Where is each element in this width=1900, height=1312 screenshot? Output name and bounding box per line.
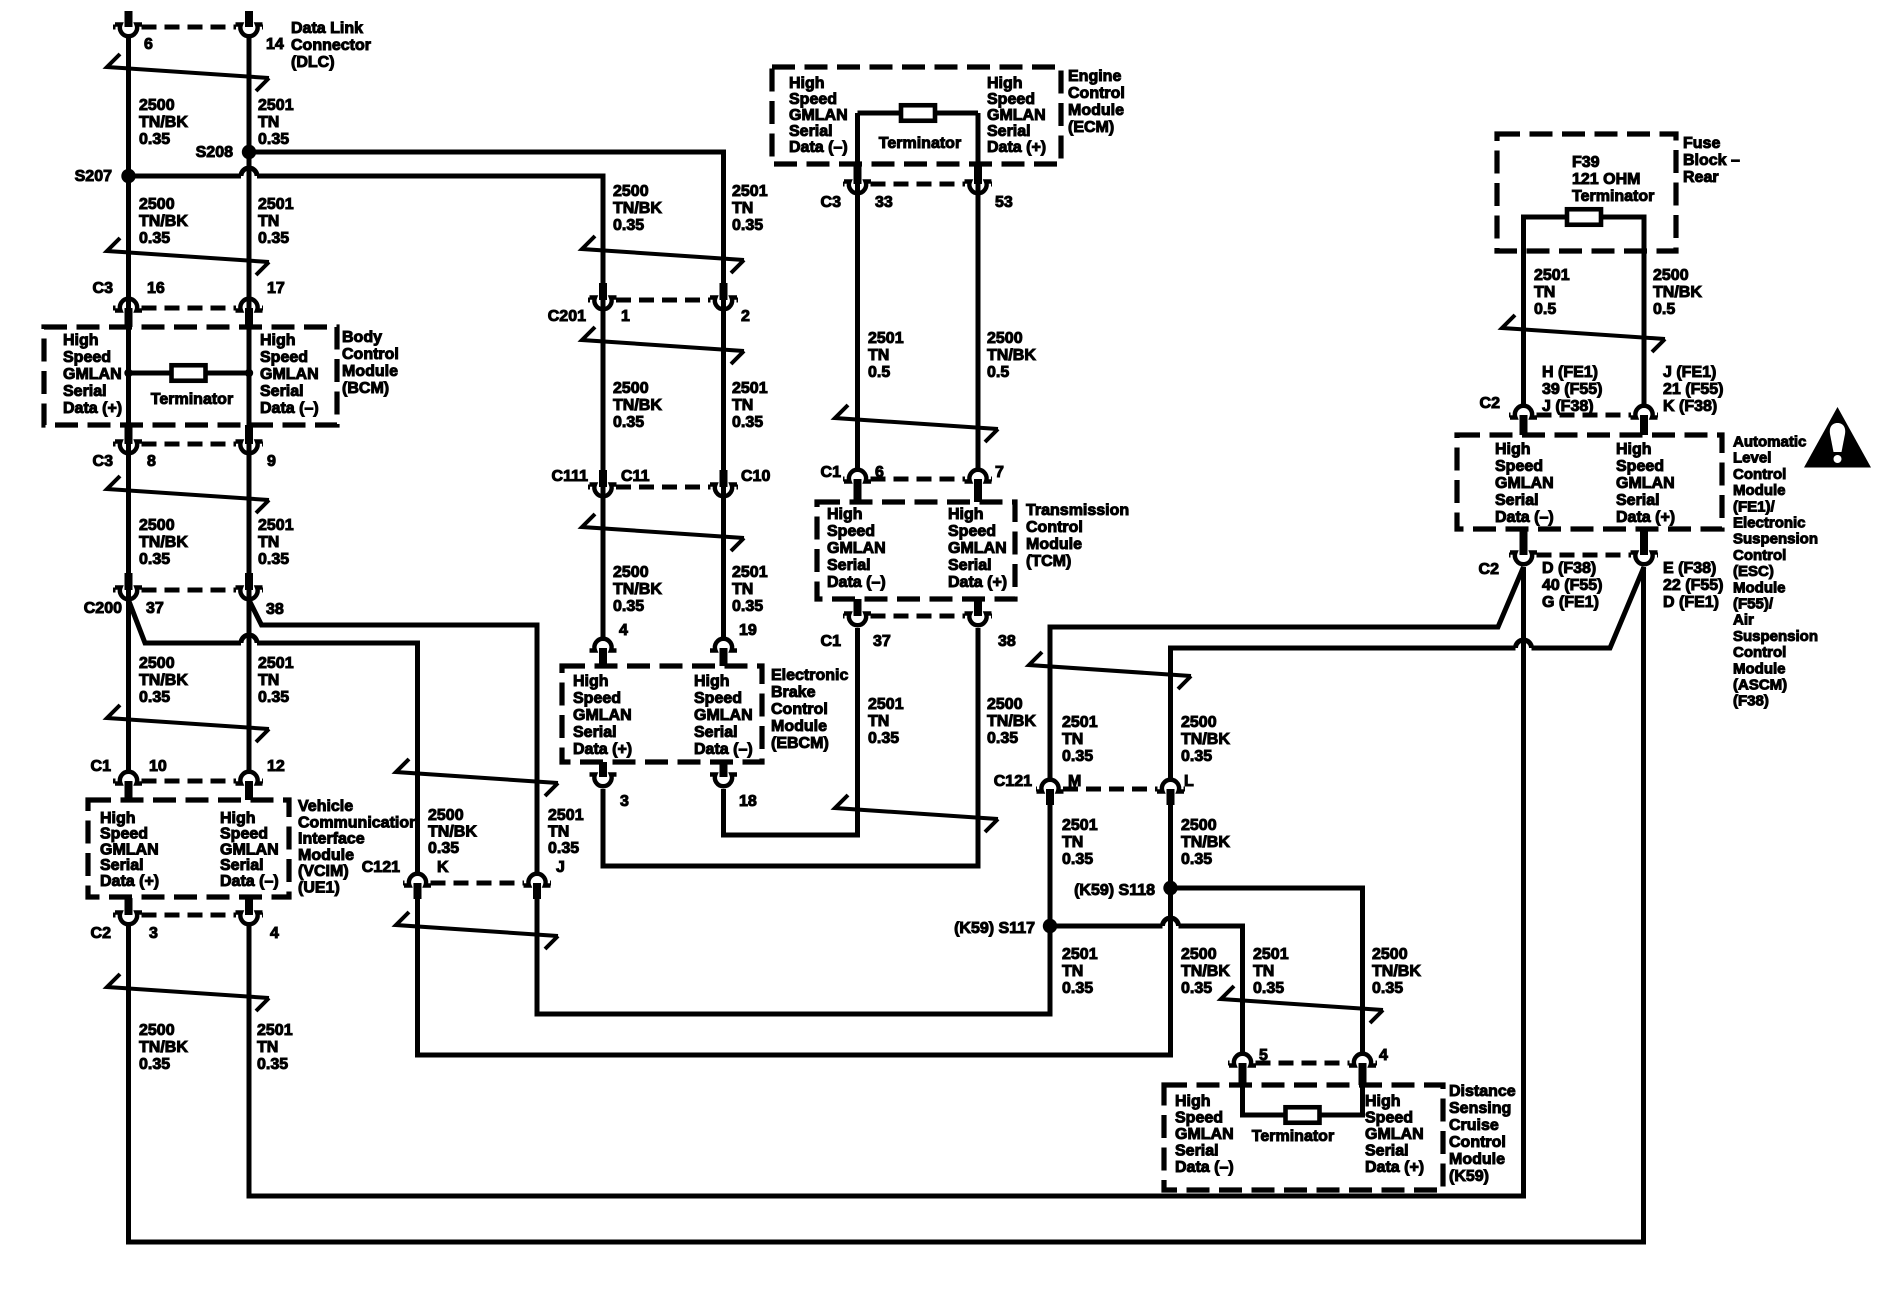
svg-text:2500: 2500 [139, 655, 175, 672]
svg-text:Block –: Block – [1683, 152, 1740, 169]
svg-text:Speed: Speed [260, 349, 308, 366]
svg-text:12: 12 [267, 758, 285, 775]
svg-text:E (F38): E (F38) [1663, 560, 1716, 577]
svg-text:High: High [220, 810, 256, 827]
svg-text:0.35: 0.35 [732, 598, 763, 615]
svg-text:GMLAN: GMLAN [1365, 1126, 1424, 1143]
svg-text:2501: 2501 [1062, 714, 1098, 731]
svg-text:17: 17 [267, 280, 285, 297]
svg-text:Speed: Speed [694, 690, 742, 707]
svg-text:C200: C200 [84, 600, 122, 617]
svg-text:Electronic: Electronic [771, 667, 848, 684]
svg-text:Level: Level [1733, 450, 1771, 467]
svg-text:2500: 2500 [139, 1022, 175, 1039]
svg-text:Communication: Communication [298, 814, 419, 831]
svg-text:2500: 2500 [987, 330, 1023, 347]
svg-text:C11: C11 [621, 468, 650, 485]
svg-text:0.35: 0.35 [732, 217, 763, 234]
svg-text:Data (+): Data (+) [987, 139, 1046, 156]
svg-text:0.35: 0.35 [613, 414, 644, 431]
svg-text:TN: TN [732, 200, 753, 217]
svg-text:TN: TN [1062, 963, 1083, 980]
svg-text:(VCIM): (VCIM) [298, 863, 349, 880]
svg-text:2501: 2501 [732, 564, 768, 581]
svg-text:4: 4 [1379, 1047, 1388, 1064]
svg-text:4: 4 [270, 925, 279, 942]
svg-text:GMLAN: GMLAN [573, 707, 632, 724]
svg-text:High: High [948, 506, 984, 523]
svg-text:Automatic: Automatic [1733, 434, 1806, 451]
svg-text:Suspension: Suspension [1733, 628, 1818, 645]
svg-text:Connector: Connector [291, 37, 371, 54]
svg-text:14: 14 [266, 36, 284, 53]
svg-text:Serial: Serial [827, 557, 871, 574]
svg-text:Speed: Speed [100, 826, 148, 843]
svg-text:Data (–): Data (–) [1175, 1159, 1234, 1176]
svg-text:Module: Module [298, 847, 354, 864]
svg-text:16: 16 [147, 280, 165, 297]
svg-text:High: High [573, 673, 609, 690]
svg-text:Module: Module [1026, 536, 1082, 553]
svg-text:H (FE1): H (FE1) [1542, 364, 1598, 381]
svg-text:0.35: 0.35 [1062, 748, 1093, 765]
svg-text:Serial: Serial [1495, 492, 1539, 509]
svg-text:(FE1)/: (FE1)/ [1733, 498, 1776, 515]
svg-text:TN: TN [258, 213, 279, 230]
svg-text:2501: 2501 [1253, 946, 1289, 963]
svg-text:D (FE1): D (FE1) [1663, 594, 1719, 611]
svg-text:2501: 2501 [1062, 946, 1098, 963]
svg-text:9: 9 [267, 453, 276, 470]
svg-text:GMLAN: GMLAN [220, 841, 279, 858]
svg-text:GMLAN: GMLAN [260, 366, 319, 383]
svg-text:C121: C121 [994, 773, 1032, 790]
svg-text:Data (–): Data (–) [694, 741, 753, 758]
svg-text:38: 38 [266, 601, 284, 618]
svg-text:J (F38): J (F38) [1542, 398, 1594, 415]
svg-text:40 (F55): 40 (F55) [1542, 577, 1602, 594]
svg-text:(ECM): (ECM) [1068, 119, 1114, 136]
svg-text:G (FE1): G (FE1) [1542, 594, 1599, 611]
svg-text:TN/BK: TN/BK [613, 581, 662, 598]
svg-text:10: 10 [149, 758, 167, 775]
svg-text:0.35: 0.35 [139, 131, 170, 148]
svg-text:TN: TN [1253, 963, 1274, 980]
svg-text:2500: 2500 [1181, 714, 1217, 731]
svg-text:Data (–): Data (–) [260, 400, 319, 417]
svg-text:(EBCM): (EBCM) [771, 735, 829, 752]
svg-text:TN: TN [868, 713, 889, 730]
svg-text:0.35: 0.35 [139, 689, 170, 706]
svg-text:TN: TN [1534, 284, 1555, 301]
svg-text:Sensing: Sensing [1449, 1100, 1511, 1117]
svg-text:TN/BK: TN/BK [613, 397, 662, 414]
svg-text:Control: Control [342, 346, 399, 363]
svg-text:TN/BK: TN/BK [1181, 963, 1230, 980]
svg-text:C2: C2 [1480, 395, 1501, 412]
svg-text:C2: C2 [91, 925, 112, 942]
svg-text:Serial: Serial [1616, 492, 1660, 509]
svg-text:Fuse: Fuse [1683, 135, 1720, 152]
svg-text:Module: Module [1068, 102, 1124, 119]
svg-text:Control: Control [771, 701, 828, 718]
svg-text:0.5: 0.5 [868, 364, 890, 381]
svg-text:0.35: 0.35 [258, 689, 289, 706]
svg-text:Module: Module [1733, 660, 1786, 677]
svg-text:TN: TN [258, 672, 279, 689]
svg-text:6: 6 [875, 464, 884, 481]
svg-text:High: High [789, 75, 825, 92]
svg-text:Terminator: Terminator [1572, 188, 1654, 205]
svg-text:Module: Module [342, 363, 398, 380]
svg-text:Serial: Serial [220, 857, 264, 874]
svg-text:(K59): (K59) [1449, 1168, 1489, 1185]
svg-text:Speed: Speed [987, 91, 1035, 108]
svg-text:Terminator: Terminator [1252, 1128, 1334, 1145]
svg-text:38: 38 [998, 633, 1016, 650]
svg-text:Data (–): Data (–) [220, 873, 279, 890]
svg-text:0.35: 0.35 [1253, 980, 1284, 997]
svg-text:2501: 2501 [258, 97, 294, 114]
svg-text:TN/BK: TN/BK [1653, 284, 1702, 301]
svg-text:High: High [1175, 1093, 1211, 1110]
svg-text:0.35: 0.35 [548, 840, 579, 857]
svg-text:TN/BK: TN/BK [987, 713, 1036, 730]
svg-text:High: High [260, 332, 296, 349]
svg-text:18: 18 [739, 793, 757, 810]
svg-text:2501: 2501 [1062, 817, 1098, 834]
svg-text:0.35: 0.35 [732, 414, 763, 431]
svg-text:TN: TN [258, 114, 279, 131]
svg-text:33: 33 [875, 194, 893, 211]
svg-text:2501: 2501 [548, 807, 584, 824]
svg-text:Speed: Speed [1175, 1110, 1223, 1127]
svg-text:Serial: Serial [63, 383, 107, 400]
svg-text:0.5: 0.5 [1653, 301, 1675, 318]
svg-text:2500: 2500 [613, 564, 649, 581]
svg-text:(ESC): (ESC) [1733, 563, 1774, 580]
svg-text:S207: S207 [75, 168, 112, 185]
svg-text:2500: 2500 [139, 196, 175, 213]
svg-text:(ASCM): (ASCM) [1733, 677, 1787, 694]
svg-text:C201: C201 [548, 308, 586, 325]
svg-text:2: 2 [741, 308, 750, 325]
svg-text:C3: C3 [93, 453, 114, 470]
svg-text:High: High [694, 673, 730, 690]
svg-text:0.35: 0.35 [1181, 748, 1212, 765]
svg-text:7: 7 [995, 464, 1004, 481]
svg-text:0.35: 0.35 [613, 217, 644, 234]
svg-text:GMLAN: GMLAN [694, 707, 753, 724]
svg-text:C2: C2 [1479, 561, 1500, 578]
svg-text:(UE1): (UE1) [298, 880, 340, 897]
svg-text:C1: C1 [91, 758, 112, 775]
svg-text:Speed: Speed [1616, 458, 1664, 475]
svg-text:TN/BK: TN/BK [139, 213, 188, 230]
svg-text:Speed: Speed [948, 523, 996, 540]
svg-text:0.35: 0.35 [987, 730, 1018, 747]
svg-text:TN/BK: TN/BK [613, 200, 662, 217]
svg-text:TN/BK: TN/BK [428, 823, 477, 840]
svg-text:0.35: 0.35 [1181, 851, 1212, 868]
svg-text:0.35: 0.35 [1181, 980, 1212, 997]
svg-text:Data (+): Data (+) [100, 873, 159, 890]
svg-text:TN/BK: TN/BK [139, 1039, 188, 1056]
svg-text:Electronic: Electronic [1733, 515, 1806, 532]
svg-text:Terminator: Terminator [151, 391, 233, 408]
svg-text:Control: Control [1449, 1134, 1506, 1151]
svg-text:TN: TN [1062, 731, 1083, 748]
svg-text:0.35: 0.35 [258, 131, 289, 148]
svg-text:TN/BK: TN/BK [987, 347, 1036, 364]
svg-text:Control: Control [1733, 466, 1786, 483]
svg-text:2501: 2501 [258, 196, 294, 213]
svg-text:2500: 2500 [1181, 817, 1217, 834]
svg-text:(TCM): (TCM) [1026, 553, 1071, 570]
svg-text:TN/BK: TN/BK [139, 672, 188, 689]
svg-text:Speed: Speed [789, 91, 837, 108]
svg-text:High: High [987, 75, 1023, 92]
svg-text:0.35: 0.35 [258, 230, 289, 247]
svg-text:GMLAN: GMLAN [948, 540, 1007, 557]
svg-text:TN: TN [1062, 834, 1083, 851]
svg-text:Control: Control [1733, 547, 1786, 564]
svg-text:2501: 2501 [868, 330, 904, 347]
svg-text:(K59) S117: (K59) S117 [954, 920, 1035, 937]
svg-text:Distance: Distance [1449, 1083, 1516, 1100]
svg-text:High: High [100, 810, 136, 827]
svg-text:0.35: 0.35 [868, 730, 899, 747]
svg-text:D (F38): D (F38) [1542, 560, 1596, 577]
svg-text:3: 3 [620, 793, 629, 810]
svg-text:(K59) S118: (K59) S118 [1074, 882, 1155, 899]
svg-text:Data Link: Data Link [291, 20, 363, 37]
svg-text:8: 8 [147, 453, 156, 470]
svg-text:Data (+): Data (+) [948, 574, 1007, 591]
svg-text:37: 37 [146, 600, 164, 617]
svg-text:Speed: Speed [1495, 458, 1543, 475]
svg-text:0.35: 0.35 [1372, 980, 1403, 997]
svg-text:2500: 2500 [987, 696, 1023, 713]
svg-text:C121: C121 [362, 859, 400, 876]
svg-text:0.35: 0.35 [257, 1056, 288, 1073]
svg-text:Data (+): Data (+) [63, 400, 122, 417]
svg-text:5: 5 [1259, 1047, 1268, 1064]
svg-text:Data (–): Data (–) [789, 139, 848, 156]
svg-text:C3: C3 [93, 280, 114, 297]
svg-text:53: 53 [995, 194, 1013, 211]
svg-text:TN/BK: TN/BK [1181, 834, 1230, 851]
svg-text:2501: 2501 [1534, 267, 1570, 284]
svg-text:Serial: Serial [789, 123, 833, 140]
svg-text:Suspension: Suspension [1733, 531, 1818, 548]
svg-text:Data (+): Data (+) [573, 741, 632, 758]
svg-text:Serial: Serial [573, 724, 617, 741]
svg-text:Data (–): Data (–) [827, 574, 886, 591]
svg-text:L: L [1184, 773, 1194, 790]
svg-text:39 (F55): 39 (F55) [1542, 381, 1602, 398]
svg-text:0.35: 0.35 [139, 1056, 170, 1073]
svg-text:GMLAN: GMLAN [987, 107, 1046, 124]
svg-text:2500: 2500 [139, 517, 175, 534]
svg-text:2501: 2501 [258, 655, 294, 672]
svg-text:22 (F55): 22 (F55) [1663, 577, 1723, 594]
svg-text:Air: Air [1733, 612, 1754, 629]
svg-text:M: M [1068, 773, 1081, 790]
svg-text:Module: Module [1733, 482, 1786, 499]
svg-text:0.35: 0.35 [258, 551, 289, 568]
svg-text:(F55)/: (F55)/ [1733, 596, 1774, 613]
svg-text:Module: Module [771, 718, 827, 735]
svg-text:C3: C3 [821, 194, 842, 211]
svg-text:2501: 2501 [258, 517, 294, 534]
svg-text:High: High [1495, 441, 1531, 458]
svg-text:Control: Control [1733, 644, 1786, 661]
svg-text:2500: 2500 [613, 380, 649, 397]
svg-text:Rear: Rear [1683, 169, 1719, 186]
svg-text:121 OHM: 121 OHM [1572, 171, 1640, 188]
svg-text:0.35: 0.35 [428, 840, 459, 857]
svg-text:GMLAN: GMLAN [100, 841, 159, 858]
svg-text:F39: F39 [1572, 154, 1600, 171]
svg-text:0.35: 0.35 [139, 551, 170, 568]
svg-text:High: High [1365, 1093, 1401, 1110]
svg-text:Speed: Speed [827, 523, 875, 540]
svg-text:C10: C10 [741, 468, 770, 485]
svg-text:(F38): (F38) [1733, 693, 1769, 710]
svg-text:Data (–): Data (–) [1495, 509, 1554, 526]
svg-text:Serial: Serial [100, 857, 144, 874]
svg-text:C1: C1 [821, 464, 842, 481]
svg-text:0.35: 0.35 [613, 598, 644, 615]
svg-text:2500: 2500 [1372, 946, 1408, 963]
svg-text:2500: 2500 [428, 807, 464, 824]
svg-text:Module: Module [1449, 1151, 1505, 1168]
svg-text:21 (F55): 21 (F55) [1663, 381, 1723, 398]
svg-text:Body: Body [342, 329, 382, 346]
svg-text:Serial: Serial [694, 724, 738, 741]
svg-text:TN/BK: TN/BK [139, 534, 188, 551]
svg-text:3: 3 [149, 925, 158, 942]
svg-text:2501: 2501 [732, 183, 768, 200]
svg-text:Interface: Interface [298, 831, 365, 848]
svg-text:2500: 2500 [1653, 267, 1689, 284]
svg-text:19: 19 [739, 622, 757, 639]
svg-text:2501: 2501 [868, 696, 904, 713]
svg-text:Control: Control [1026, 519, 1083, 536]
svg-text:Speed: Speed [573, 690, 621, 707]
svg-text:TN: TN [732, 397, 753, 414]
svg-text:GMLAN: GMLAN [1616, 475, 1675, 492]
svg-text:2500: 2500 [613, 183, 649, 200]
svg-text:2501: 2501 [732, 380, 768, 397]
svg-text:Data (+): Data (+) [1616, 509, 1675, 526]
svg-text:High: High [827, 506, 863, 523]
svg-text:Serial: Serial [948, 557, 992, 574]
svg-text:Vehicle: Vehicle [298, 798, 353, 815]
svg-text:0.35: 0.35 [139, 230, 170, 247]
svg-text:J (FE1): J (FE1) [1663, 364, 1716, 381]
svg-text:2500: 2500 [1181, 946, 1217, 963]
svg-text:Cruise: Cruise [1449, 1117, 1499, 1134]
svg-text:TN: TN [257, 1039, 278, 1056]
svg-text:Engine: Engine [1068, 68, 1121, 85]
svg-text:GMLAN: GMLAN [63, 366, 122, 383]
svg-text:TN/BK: TN/BK [139, 114, 188, 131]
svg-text:0.35: 0.35 [1062, 851, 1093, 868]
svg-text:Serial: Serial [1365, 1143, 1409, 1160]
svg-text:(DLC): (DLC) [291, 54, 335, 71]
svg-text:Serial: Serial [260, 383, 304, 400]
svg-text:TN: TN [868, 347, 889, 364]
svg-text:K (F38): K (F38) [1663, 398, 1717, 415]
svg-text:0.5: 0.5 [1534, 301, 1556, 318]
svg-text:2500: 2500 [139, 97, 175, 114]
svg-text:J: J [556, 859, 565, 876]
svg-text:(BCM): (BCM) [342, 380, 389, 397]
svg-text:C111: C111 [552, 468, 589, 485]
svg-text:High: High [63, 332, 99, 349]
svg-text:Terminator: Terminator [879, 135, 961, 152]
svg-text:K: K [437, 859, 449, 876]
svg-text:Speed: Speed [63, 349, 111, 366]
svg-text:Module: Module [1733, 579, 1786, 596]
svg-text:GMLAN: GMLAN [827, 540, 886, 557]
svg-text:Data (+): Data (+) [1365, 1159, 1424, 1176]
svg-text:0.5: 0.5 [987, 364, 1009, 381]
svg-text:1: 1 [621, 308, 630, 325]
svg-text:TN/BK: TN/BK [1372, 963, 1421, 980]
svg-text:4: 4 [619, 622, 628, 639]
svg-text:TN/BK: TN/BK [1181, 731, 1230, 748]
svg-text:C1: C1 [821, 633, 842, 650]
svg-text:GMLAN: GMLAN [789, 107, 848, 124]
svg-text:Serial: Serial [987, 123, 1031, 140]
svg-text:6: 6 [144, 36, 153, 53]
svg-text:S208: S208 [196, 144, 233, 161]
svg-text:Speed: Speed [220, 826, 268, 843]
svg-text:37: 37 [873, 633, 891, 650]
svg-text:0.35: 0.35 [1062, 980, 1093, 997]
svg-text:TN: TN [732, 581, 753, 598]
svg-text:Control: Control [1068, 85, 1125, 102]
svg-text:TN: TN [258, 534, 279, 551]
svg-text:Brake: Brake [771, 684, 816, 701]
svg-text:GMLAN: GMLAN [1495, 475, 1554, 492]
svg-text:TN: TN [548, 823, 569, 840]
svg-text:Serial: Serial [1175, 1143, 1219, 1160]
svg-text:Transmission: Transmission [1026, 502, 1129, 519]
svg-text:High: High [1616, 441, 1652, 458]
svg-text:Speed: Speed [1365, 1110, 1413, 1127]
svg-text:2501: 2501 [257, 1022, 293, 1039]
svg-text:GMLAN: GMLAN [1175, 1126, 1234, 1143]
